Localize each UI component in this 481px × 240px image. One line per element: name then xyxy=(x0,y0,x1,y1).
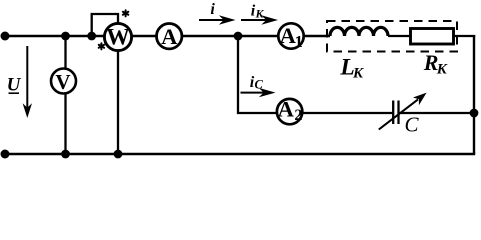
ammeter A1 xyxy=(278,23,303,51)
wire inductor to resistor xyxy=(388,35,411,37)
svg-text:K: K xyxy=(254,6,264,20)
resistor RK xyxy=(411,29,454,45)
wire voltmeter branch xyxy=(64,36,66,154)
capacitor variable arrow xyxy=(379,93,427,130)
svg-text:A: A xyxy=(278,97,295,122)
wire branch split to A2 and left capacitor lead xyxy=(238,36,393,113)
wire right vertical xyxy=(473,35,475,154)
arrow current iC xyxy=(241,74,276,97)
node branch split junction xyxy=(234,32,243,41)
node left bottom terminal xyxy=(1,150,10,159)
svg-text:V: V xyxy=(55,70,70,94)
svg-text:C: C xyxy=(255,78,264,92)
arrow current i xyxy=(199,1,236,25)
svg-text:C: C xyxy=(405,112,420,136)
ammeter A xyxy=(157,24,182,50)
wire right capacitor lead xyxy=(399,112,476,114)
label LK xyxy=(339,55,364,82)
svg-text:K: K xyxy=(352,66,364,82)
svg-text:K: K xyxy=(436,62,448,78)
wire wattmeter current branch xyxy=(117,37,119,154)
wattmeter asterisk bottom xyxy=(99,43,104,49)
capacitor C plates xyxy=(393,101,398,125)
svg-text:A: A xyxy=(161,24,178,49)
svg-text:1: 1 xyxy=(295,32,303,51)
wire resistor to right corner xyxy=(453,35,475,37)
arrow current iK xyxy=(241,2,278,24)
arrow voltage U xyxy=(7,46,32,118)
node wattmeter bracket junction xyxy=(87,32,96,41)
node capacitor right junction xyxy=(470,109,479,118)
node voltmeter bottom junction xyxy=(61,150,70,159)
label RK xyxy=(423,50,448,77)
svg-text:2: 2 xyxy=(294,107,302,124)
wattmeter asterisk top xyxy=(123,10,128,16)
svg-text:U: U xyxy=(7,75,22,96)
wire wattmeter voltage bracket xyxy=(92,14,118,36)
svg-text:W: W xyxy=(106,25,130,51)
dashed box coil branch xyxy=(327,21,457,52)
wire top bus xyxy=(5,35,330,37)
ammeter A2 xyxy=(277,97,303,125)
node left top terminal xyxy=(1,32,10,41)
node voltmeter top junction xyxy=(61,32,70,41)
wattmeter W xyxy=(104,23,131,50)
voltmeter V xyxy=(51,69,76,94)
inductor LK xyxy=(330,27,388,36)
wire bottom bus xyxy=(5,153,475,155)
svg-text:i: i xyxy=(210,1,215,18)
node wattmeter bottom junction xyxy=(114,150,123,159)
